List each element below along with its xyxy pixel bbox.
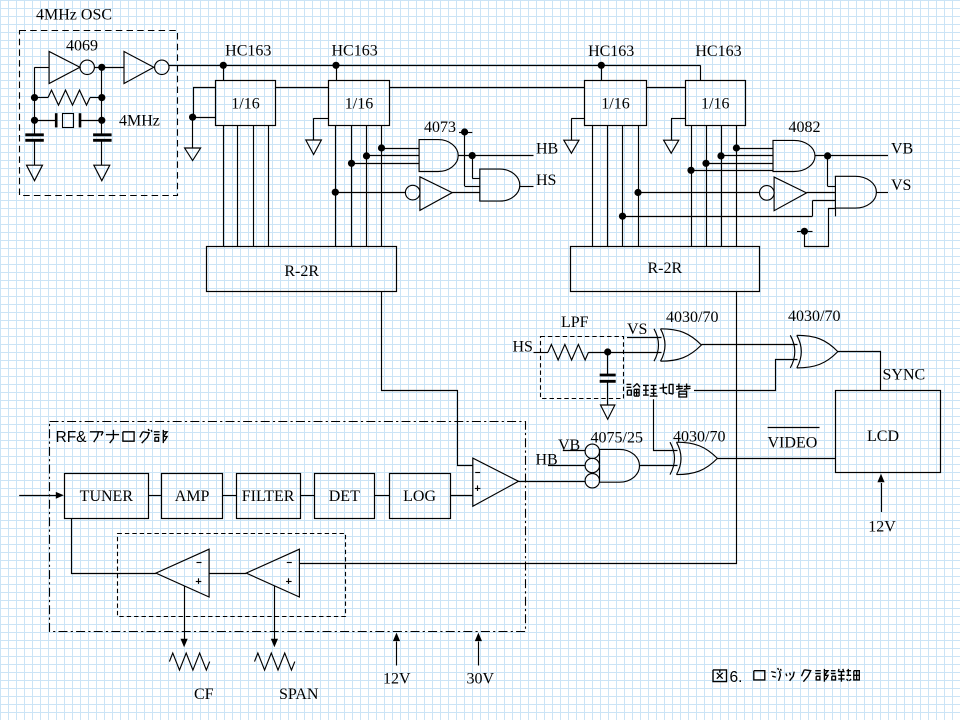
svg-text:DET: DET xyxy=(329,488,360,505)
svg-text:4082: 4082 xyxy=(789,119,821,136)
svg-text:1/16: 1/16 xyxy=(345,95,373,112)
svg-text:4MHz: 4MHz xyxy=(119,113,160,130)
svg-text:4073: 4073 xyxy=(424,119,456,136)
svg-text:1/16: 1/16 xyxy=(701,95,729,112)
svg-text:LOG: LOG xyxy=(403,488,436,505)
svg-text:1/16: 1/16 xyxy=(231,95,259,112)
svg-text:4MHz OSC: 4MHz OSC xyxy=(36,7,112,24)
svg-text:4075/25: 4075/25 xyxy=(591,430,643,447)
svg-text:FILTER: FILTER xyxy=(242,488,295,505)
svg-text:HC163: HC163 xyxy=(225,42,271,59)
svg-text:1/16: 1/16 xyxy=(601,95,629,112)
svg-text:TUNER: TUNER xyxy=(80,488,134,505)
svg-text:VS: VS xyxy=(891,177,911,194)
svg-text:VB: VB xyxy=(891,140,913,157)
svg-text:R-2R: R-2R xyxy=(284,263,319,280)
svg-text:30V: 30V xyxy=(467,671,495,688)
svg-text:4030/70: 4030/70 xyxy=(788,308,840,325)
svg-text:LPF: LPF xyxy=(561,314,589,331)
svg-text:HC163: HC163 xyxy=(331,42,377,59)
svg-text:6.: 6. xyxy=(730,669,743,686)
svg-text:4069: 4069 xyxy=(66,38,98,55)
svg-text:4030/70: 4030/70 xyxy=(666,309,718,326)
svg-text:HS: HS xyxy=(536,172,556,189)
svg-text:VIDEO: VIDEO xyxy=(768,434,818,451)
svg-text:AMP: AMP xyxy=(175,488,210,505)
svg-text:SYNC: SYNC xyxy=(883,367,926,384)
svg-text:VS: VS xyxy=(627,321,647,338)
svg-text:SPAN: SPAN xyxy=(279,686,319,703)
svg-text:12V: 12V xyxy=(868,519,896,536)
svg-text:VB: VB xyxy=(558,437,580,454)
svg-text:R-2R: R-2R xyxy=(647,260,682,277)
svg-text:HC163: HC163 xyxy=(695,43,741,60)
svg-text:4030/70: 4030/70 xyxy=(673,429,725,446)
svg-text:CF: CF xyxy=(194,686,214,703)
svg-text:LCD: LCD xyxy=(867,428,899,445)
svg-text:HC163: HC163 xyxy=(588,43,634,60)
svg-text:HS: HS xyxy=(513,339,533,356)
svg-text:12V: 12V xyxy=(383,671,411,688)
svg-text:HB: HB xyxy=(536,140,558,157)
svg-text:RF&: RF& xyxy=(56,429,88,446)
